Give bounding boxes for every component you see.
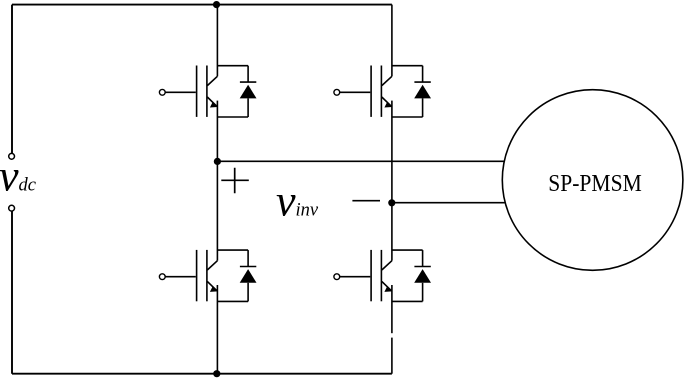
svg-text:vinv: vinv	[276, 177, 319, 226]
node A: inverter output + junction	[214, 158, 221, 165]
node: top bus junction (phase-A leg tap)	[213, 1, 220, 8]
diode D4 (freewheeling diode of Q4)	[392, 250, 431, 301]
diode D1 (freewheeling diode of Q1)	[217, 66, 256, 117]
diode D3 (freewheeling diode of Q3)	[217, 250, 256, 301]
diode D2 (freewheeling diode of Q2)	[392, 66, 431, 117]
wire: phase-B leg, top bus to Q2 collector	[391, 5, 393, 77]
svg-text:SP-PMSM: SP-PMSM	[548, 171, 642, 197]
wire: top DC bus rail	[12, 4, 392, 6]
wire: node A to motor (+ output lead)	[217, 160, 505, 162]
wire: node B to Q4 collector	[391, 203, 393, 261]
wire: Q1 emitter down to node A	[216, 101, 218, 162]
terminal: Vdc negative terminal	[9, 205, 15, 211]
terminal: Vdc positive terminal	[9, 153, 15, 159]
wire: node A to Q3 collector	[216, 161, 218, 260]
transistor Q2 (IGBT, top-right)	[334, 66, 392, 117]
motor M1: SP-PMSM machine body	[502, 90, 683, 271]
transistor Q3 (IGBT, bottom-left)	[159, 250, 217, 301]
transistor Q1 (IGBT, top-left)	[159, 66, 217, 117]
wire: left DC lead, - terminal to bottom rail	[11, 211, 13, 373]
node B: inverter output - junction	[388, 199, 395, 206]
node: bottom bus junction (phase-A leg tap)	[213, 370, 220, 377]
wire: phase-A leg, top bus to Q1 collector	[216, 5, 218, 77]
wire: Q3 emitter to bottom bus	[216, 285, 218, 374]
wire: Q4 emitter, upper segment (gap in original)	[391, 285, 393, 333]
wire: Q4 emitter, lower segment to bottom bus	[391, 338, 393, 374]
label: + polarity mark of vinv	[221, 168, 249, 194]
transistor Q4 (IGBT, bottom-right)	[334, 250, 392, 301]
wire: left DC lead, top rail to + terminal	[11, 5, 13, 154]
wire: node B to motor (- output lead)	[392, 202, 506, 204]
svg-text:vdc: vdc	[0, 152, 37, 201]
wire: Q2 emitter down to node B	[391, 101, 393, 203]
wire: bottom DC bus rail	[12, 373, 392, 375]
label: - polarity mark of vinv	[352, 200, 380, 202]
